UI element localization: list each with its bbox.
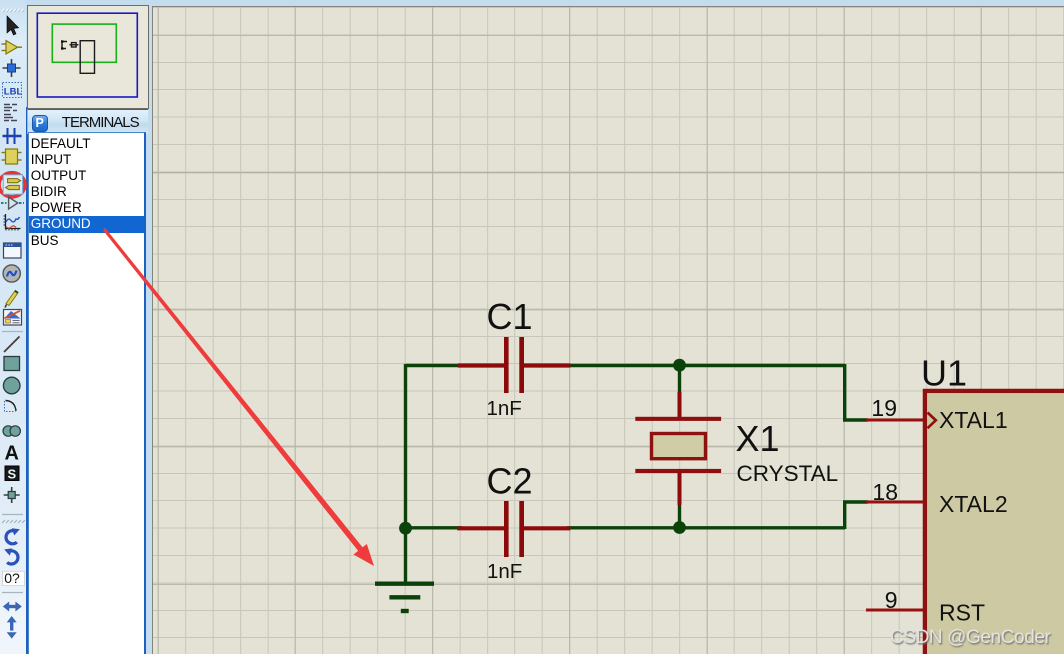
wire: top horizontal net, left of C1: [406, 364, 463, 367]
tool: 2D box: [4, 357, 20, 371]
wire: bottom horizontal, left of C2: [406, 526, 463, 529]
wire: top horizontal net, right of C1: [567, 364, 845, 367]
tool: bus: [3, 128, 22, 144]
tool: component body: [2, 149, 22, 164]
tool: text script: [4, 105, 17, 121]
wire: crystal top stub green: [678, 365, 681, 394]
node: junction bottom (crystal/bottom net): [673, 521, 686, 534]
tool: 2D line: [4, 337, 20, 353]
crystal X1 bottom plate: [635, 469, 721, 473]
overview thumbnail circuit marks: [62, 41, 95, 74]
tool: 2D closed path: [3, 426, 20, 436]
capacitor C1 pins: [458, 363, 505, 367]
tool: rotate clockwise: [6, 528, 20, 544]
toolbar icons: [0, 0, 26, 654]
crystal X1 body: [652, 434, 706, 459]
capacitor C1 plates: [504, 337, 509, 393]
tool: wire label LBL: [3, 83, 23, 98]
tool: mirror vertical: [7, 616, 17, 639]
wire: crystal bottom stub green: [678, 504, 681, 529]
tool: generator: [3, 265, 20, 282]
red highlight circle around terminal tool: [0, 173, 25, 197]
tool: selection cursor: [7, 16, 19, 35]
separator: [2, 331, 23, 333]
wire: right vertical lower (to XTAL2): [845, 502, 868, 529]
pin 9 wire (RST): [866, 609, 923, 612]
tool: instrument meter: [4, 310, 22, 326]
node: junction left (ground branch): [399, 522, 412, 535]
chip U1 body: [925, 391, 1064, 654]
crystal X1 top pin: [678, 392, 682, 417]
tool: 2D arc: [5, 401, 17, 412]
pin 18 wire (XTAL2): [866, 501, 923, 504]
red annotation arrow shaft (tapered): [103, 228, 364, 552]
crystal X1 bottom pin: [678, 473, 682, 505]
watermark: [890, 627, 1050, 649]
pin XTAL1 input chevron: [928, 413, 936, 429]
TERMINALS header: [27, 109, 148, 133]
terminals list: [28, 132, 146, 654]
node: junction top (crystal/top net): [673, 359, 686, 372]
ground terminal: [375, 584, 434, 611]
capacitor C2 pins: [457, 526, 505, 530]
overview (world) panel: [27, 5, 149, 109]
tool: mirror horizontal: [3, 602, 22, 612]
tool: tape recorder window: [4, 243, 22, 258]
separator: [2, 514, 23, 516]
wire: bottom horizontal, right of C2: [567, 526, 845, 529]
pin 19 wire (XTAL1): [866, 419, 923, 422]
svg-text:S: S: [8, 467, 17, 482]
red annotation arrow head: [354, 544, 375, 566]
tool: graph: [4, 214, 21, 231]
tool: component mode (buffer): [2, 41, 23, 55]
wire: left vertical: [404, 364, 407, 584]
svg-text:LBL: LBL: [4, 87, 23, 98]
tool: 2D circle: [3, 377, 20, 394]
svg-text:0?: 0?: [4, 570, 20, 586]
overview blue world border: [37, 13, 137, 97]
tool: device pin: [1, 197, 24, 209]
separator: [2, 592, 23, 594]
tool: voltage probe: [5, 291, 18, 308]
capacitor C2 plates: [504, 501, 509, 557]
tool: junction dot: [3, 59, 21, 77]
tool: 2D symbol S: [5, 466, 19, 482]
left toolbar background: [0, 0, 26, 654]
toolbar grip: [2, 9, 24, 12]
svg-text:A: A: [5, 443, 19, 465]
tool: origin marker: [4, 487, 20, 503]
wire: right vertical upper (to XTAL1): [845, 364, 868, 420]
tool: rotate anticlockwise: [4, 548, 18, 564]
crystal X1 top plate: [635, 417, 721, 421]
toolbar/panel blue separator: [26, 107, 28, 654]
angle edit box 0?: [3, 570, 25, 586]
overview green viewport rect: [52, 24, 116, 62]
tool: terminals (selected): [3, 175, 22, 194]
